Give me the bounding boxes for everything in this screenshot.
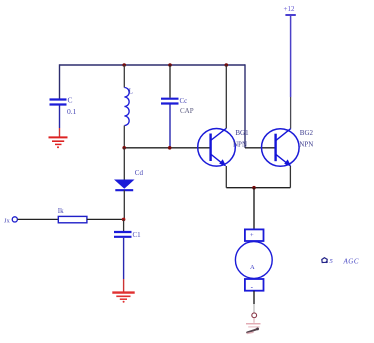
wire top rail node VT: [60, 64, 246, 66]
svg-text:BG2: BG2: [300, 129, 314, 137]
wire faint below circle: [253, 318, 255, 323]
svg-text:+: +: [250, 232, 254, 239]
capacitor C1: [114, 231, 141, 239]
svg-text:0.1: 0.1: [67, 107, 77, 116]
wire BG1 emitter down: [225, 166, 227, 188]
wire BG2 base drop from top rail: [244, 64, 246, 148]
svg-text:Jx: Jx: [4, 217, 11, 224]
wire resistor to node: [87, 218, 124, 220]
wire middle to diode: [123, 148, 125, 180]
svg-text:L: L: [129, 88, 133, 96]
resistor Ik: [58, 207, 87, 223]
ground (C1): [112, 293, 134, 303]
capacitor Cc: [161, 97, 194, 115]
svg-text:C1: C1: [133, 231, 142, 239]
wire Jx to resistor: [18, 218, 59, 220]
wire node to C1: [123, 219, 125, 231]
svg-text:AGC: AGC: [343, 258, 360, 266]
power +12: [284, 5, 296, 97]
wire bottom emitter rail: [226, 187, 290, 189]
svg-text:Ik: Ik: [58, 207, 64, 215]
wire middle rail to BG1 base: [124, 147, 211, 149]
node junction top of L: [122, 63, 126, 67]
ground (left): [49, 137, 68, 148]
wire bottom of inductor: [123, 126, 125, 149]
wire BG1 collector up: [225, 65, 227, 128]
wire left vertical to capacitor C: [59, 64, 61, 98]
diode Cd: [114, 169, 143, 190]
svg-text:Cc: Cc: [180, 97, 188, 105]
capacitor C: [50, 96, 77, 117]
transistor BG2: [262, 128, 314, 166]
wire bottom of Cc: [169, 105, 171, 149]
wire below meter: [253, 291, 255, 304]
svg-text:NPN: NPN: [299, 140, 313, 148]
wire top of Cc: [169, 65, 171, 98]
svg-text:BG1: BG1: [235, 129, 249, 137]
svg-text:Cd: Cd: [135, 169, 144, 177]
node junction input: [122, 218, 126, 222]
svg-text:+12: +12: [284, 5, 295, 13]
node junction top of Cc: [168, 63, 172, 67]
node small red circle: [252, 313, 257, 318]
wire below diode: [123, 190, 125, 219]
transistor BG1: [198, 128, 249, 166]
terminal Jx: [4, 217, 17, 225]
node junction top of BG1 collector: [225, 63, 229, 67]
wire C1 to ground: [123, 238, 125, 279]
wire +12 to BG2 collector: [290, 97, 292, 128]
svg-text:CAP: CAP: [180, 107, 194, 115]
inductor L: [124, 88, 132, 126]
svg-text:C: C: [68, 96, 73, 105]
node junction Cc bottom: [168, 146, 172, 150]
node annotation to 5 AGC: [322, 258, 359, 266]
wire top of inductor: [123, 65, 125, 88]
wire BG2 emitter down: [289, 166, 291, 188]
ground (red annotation): [246, 324, 261, 334]
svg-text:A: A: [250, 264, 255, 271]
wire to meter: [253, 188, 255, 230]
node junction emitter rail: [252, 186, 256, 190]
meter A (motor): [235, 229, 272, 291]
wire below C: [59, 106, 61, 129]
node junction L bottom: [122, 146, 126, 150]
